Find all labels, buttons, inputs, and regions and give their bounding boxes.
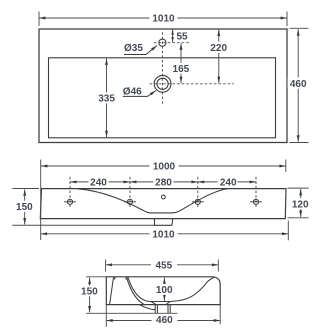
bowl interior profile left <box>128 277 151 301</box>
svg-text:1010: 1010 <box>152 229 175 240</box>
dim 1010 top: extension lines <box>38 12 40 27</box>
svg-text:460: 460 <box>290 79 307 90</box>
dim 150 line <box>24 189 26 224</box>
svg-text:335: 335 <box>98 94 115 105</box>
dashed horizontal centerline big hole <box>150 83 235 85</box>
fixing hole 1 <box>64 199 76 204</box>
dim 55 <box>172 30 174 42</box>
dim 335 <box>106 59 108 138</box>
waste hole O46 outer <box>154 75 171 92</box>
dashed horizontal centerline small hole <box>154 42 190 44</box>
back wall cavity left side <box>110 277 114 304</box>
section outline <box>106 277 220 305</box>
bowl interior profile right <box>170 277 214 301</box>
dim 460 right: extension lines <box>290 27 309 29</box>
dim 460 right: dimension line <box>297 29 299 141</box>
left extension shared 1000/1010 <box>40 160 42 241</box>
fixing hole 2 <box>124 199 136 204</box>
dim 460 line <box>106 320 220 322</box>
dashed vertical centerline through holes <box>161 32 163 104</box>
dashed hole reference verticals <box>69 177 71 208</box>
basin body outline <box>40 189 286 219</box>
dim 165 <box>180 43 182 83</box>
svg-text:Ø35: Ø35 <box>124 43 143 54</box>
dim 455: extension lines <box>105 260 107 272</box>
svg-text:150: 150 <box>81 287 98 298</box>
svg-text:460: 460 <box>156 315 173 326</box>
svg-text:150: 150 <box>16 202 33 213</box>
fixing hole 4 <box>250 199 262 204</box>
tap hole cut ticks <box>114 277 116 280</box>
svg-text:1000: 1000 <box>153 162 176 173</box>
back wall cavity right side (outer bowl wall) <box>127 277 144 304</box>
inner basin rectangle <box>49 58 276 138</box>
dim 1000: right extension <box>285 160 287 173</box>
drain outlet pipe <box>155 305 170 314</box>
tap hole circle O35 <box>159 39 166 46</box>
dim 150 section line <box>89 278 91 313</box>
svg-text:240: 240 <box>90 178 107 189</box>
dim 150 left: extensions <box>12 188 39 190</box>
fixing hole 3 <box>192 199 204 204</box>
waste hole O46 inner <box>157 78 168 89</box>
drain tab below bottom edge <box>155 219 173 226</box>
drain recess funnel <box>151 302 170 305</box>
svg-text:1010: 1010 <box>152 14 175 25</box>
svg-text:280: 280 <box>155 178 172 189</box>
svg-text:100: 100 <box>156 285 173 296</box>
svg-text:165: 165 <box>173 64 190 75</box>
svg-text:455: 455 <box>155 260 172 271</box>
dim 1010 top: dimension line <box>39 17 287 19</box>
dim 150 section: extensions <box>86 276 107 278</box>
dim 1010 bottom line <box>41 233 289 235</box>
dim 120 line <box>300 189 302 217</box>
dim 1000 line <box>41 165 286 167</box>
bowl underside hang toward drain <box>140 305 156 310</box>
svg-text:120: 120 <box>292 200 309 211</box>
dim 455 line <box>106 264 219 266</box>
dim 220 <box>218 30 220 83</box>
svg-text:220: 220 <box>210 43 227 54</box>
dim 120 right: extensions <box>288 187 309 189</box>
front wave dip curve <box>78 189 228 213</box>
dim 1010 bottom: right extension <box>287 221 289 241</box>
dims 240 / 280 / 240 line <box>70 181 130 183</box>
dim 460: extensions (edges extended) <box>105 305 107 327</box>
dim 100 bowl depth <box>163 278 165 301</box>
outer rim rectangle <box>39 29 287 143</box>
svg-text:55: 55 <box>177 31 189 42</box>
overflow hole <box>161 195 165 199</box>
svg-text:240: 240 <box>220 178 237 189</box>
